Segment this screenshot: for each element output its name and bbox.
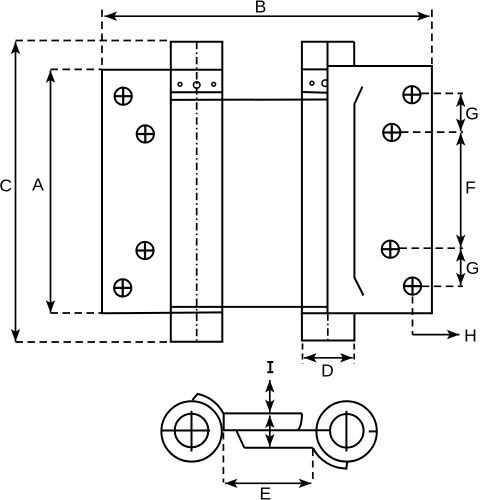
dimension F arrow [460,133,462,247]
right leaf plate [301,65,432,314]
screw hole right plate 4 [403,277,422,296]
bottom view: leaf mid line [224,429,330,431]
svg-text:E: E [260,484,272,500]
dimension H [413,297,460,335]
screw hole left plate 2 [136,125,155,144]
svg-text:D: D [321,361,334,381]
bottom view: left pin center line [191,411,193,452]
bottom view: right knuckle outer [316,401,376,461]
screw hole right plate 3 [381,240,400,259]
right plate spring edge [354,87,363,296]
screw hole right plate 2 [383,123,402,142]
svg-text:H: H [464,325,477,345]
svg-text:F: F [465,177,476,197]
screw hole left plate 3 [136,241,155,260]
dimension G bottom arrow [460,249,462,285]
dimension D [303,344,355,365]
dimension I arrows [269,380,271,447]
bottom view: right pin center line [345,411,347,452]
svg-text:G: G [465,103,479,123]
left barrel crimp lines [171,92,328,307]
bottom view: right center tick [369,430,377,432]
svg-text:G: G [466,258,480,278]
bottom view: left wrap tab [192,394,223,414]
bottom view: right wrap tab [313,448,348,469]
bottom view: upper leaf [224,413,302,431]
dimension B line [102,10,432,69]
bottom view: left center tick [161,430,210,432]
dimension C line [16,41,171,343]
left leaf plate [101,70,222,314]
dimension A line [51,69,103,313]
left barrel center line [196,42,198,342]
screw hole left plate 4 [113,279,132,298]
bottom view: lower leaf [237,431,313,448]
screw hole left plate 1 [114,87,133,106]
right barrel bottom section [301,313,356,340]
dimension E [223,433,312,484]
right barrel pin holes [310,80,328,87]
bottom view: left knuckle inner [175,414,209,448]
left barrel pin holes [178,82,216,89]
bottom view: left knuckle outer [161,401,221,461]
bottom view: right knuckle inner [330,414,364,448]
right barrel [301,42,354,341]
right dimension extension dashes [400,93,464,286]
svg-text:B: B [255,0,267,17]
svg-text:A: A [32,175,44,195]
right barrel crimp lines [302,69,328,92]
svg-text:C: C [0,175,12,195]
left barrel [170,42,224,342]
screw hole right plate 1 [403,85,422,104]
dimension G top arrow [460,94,462,131]
label I glyph [267,362,273,372]
right barrel bottom center line [327,313,329,340]
